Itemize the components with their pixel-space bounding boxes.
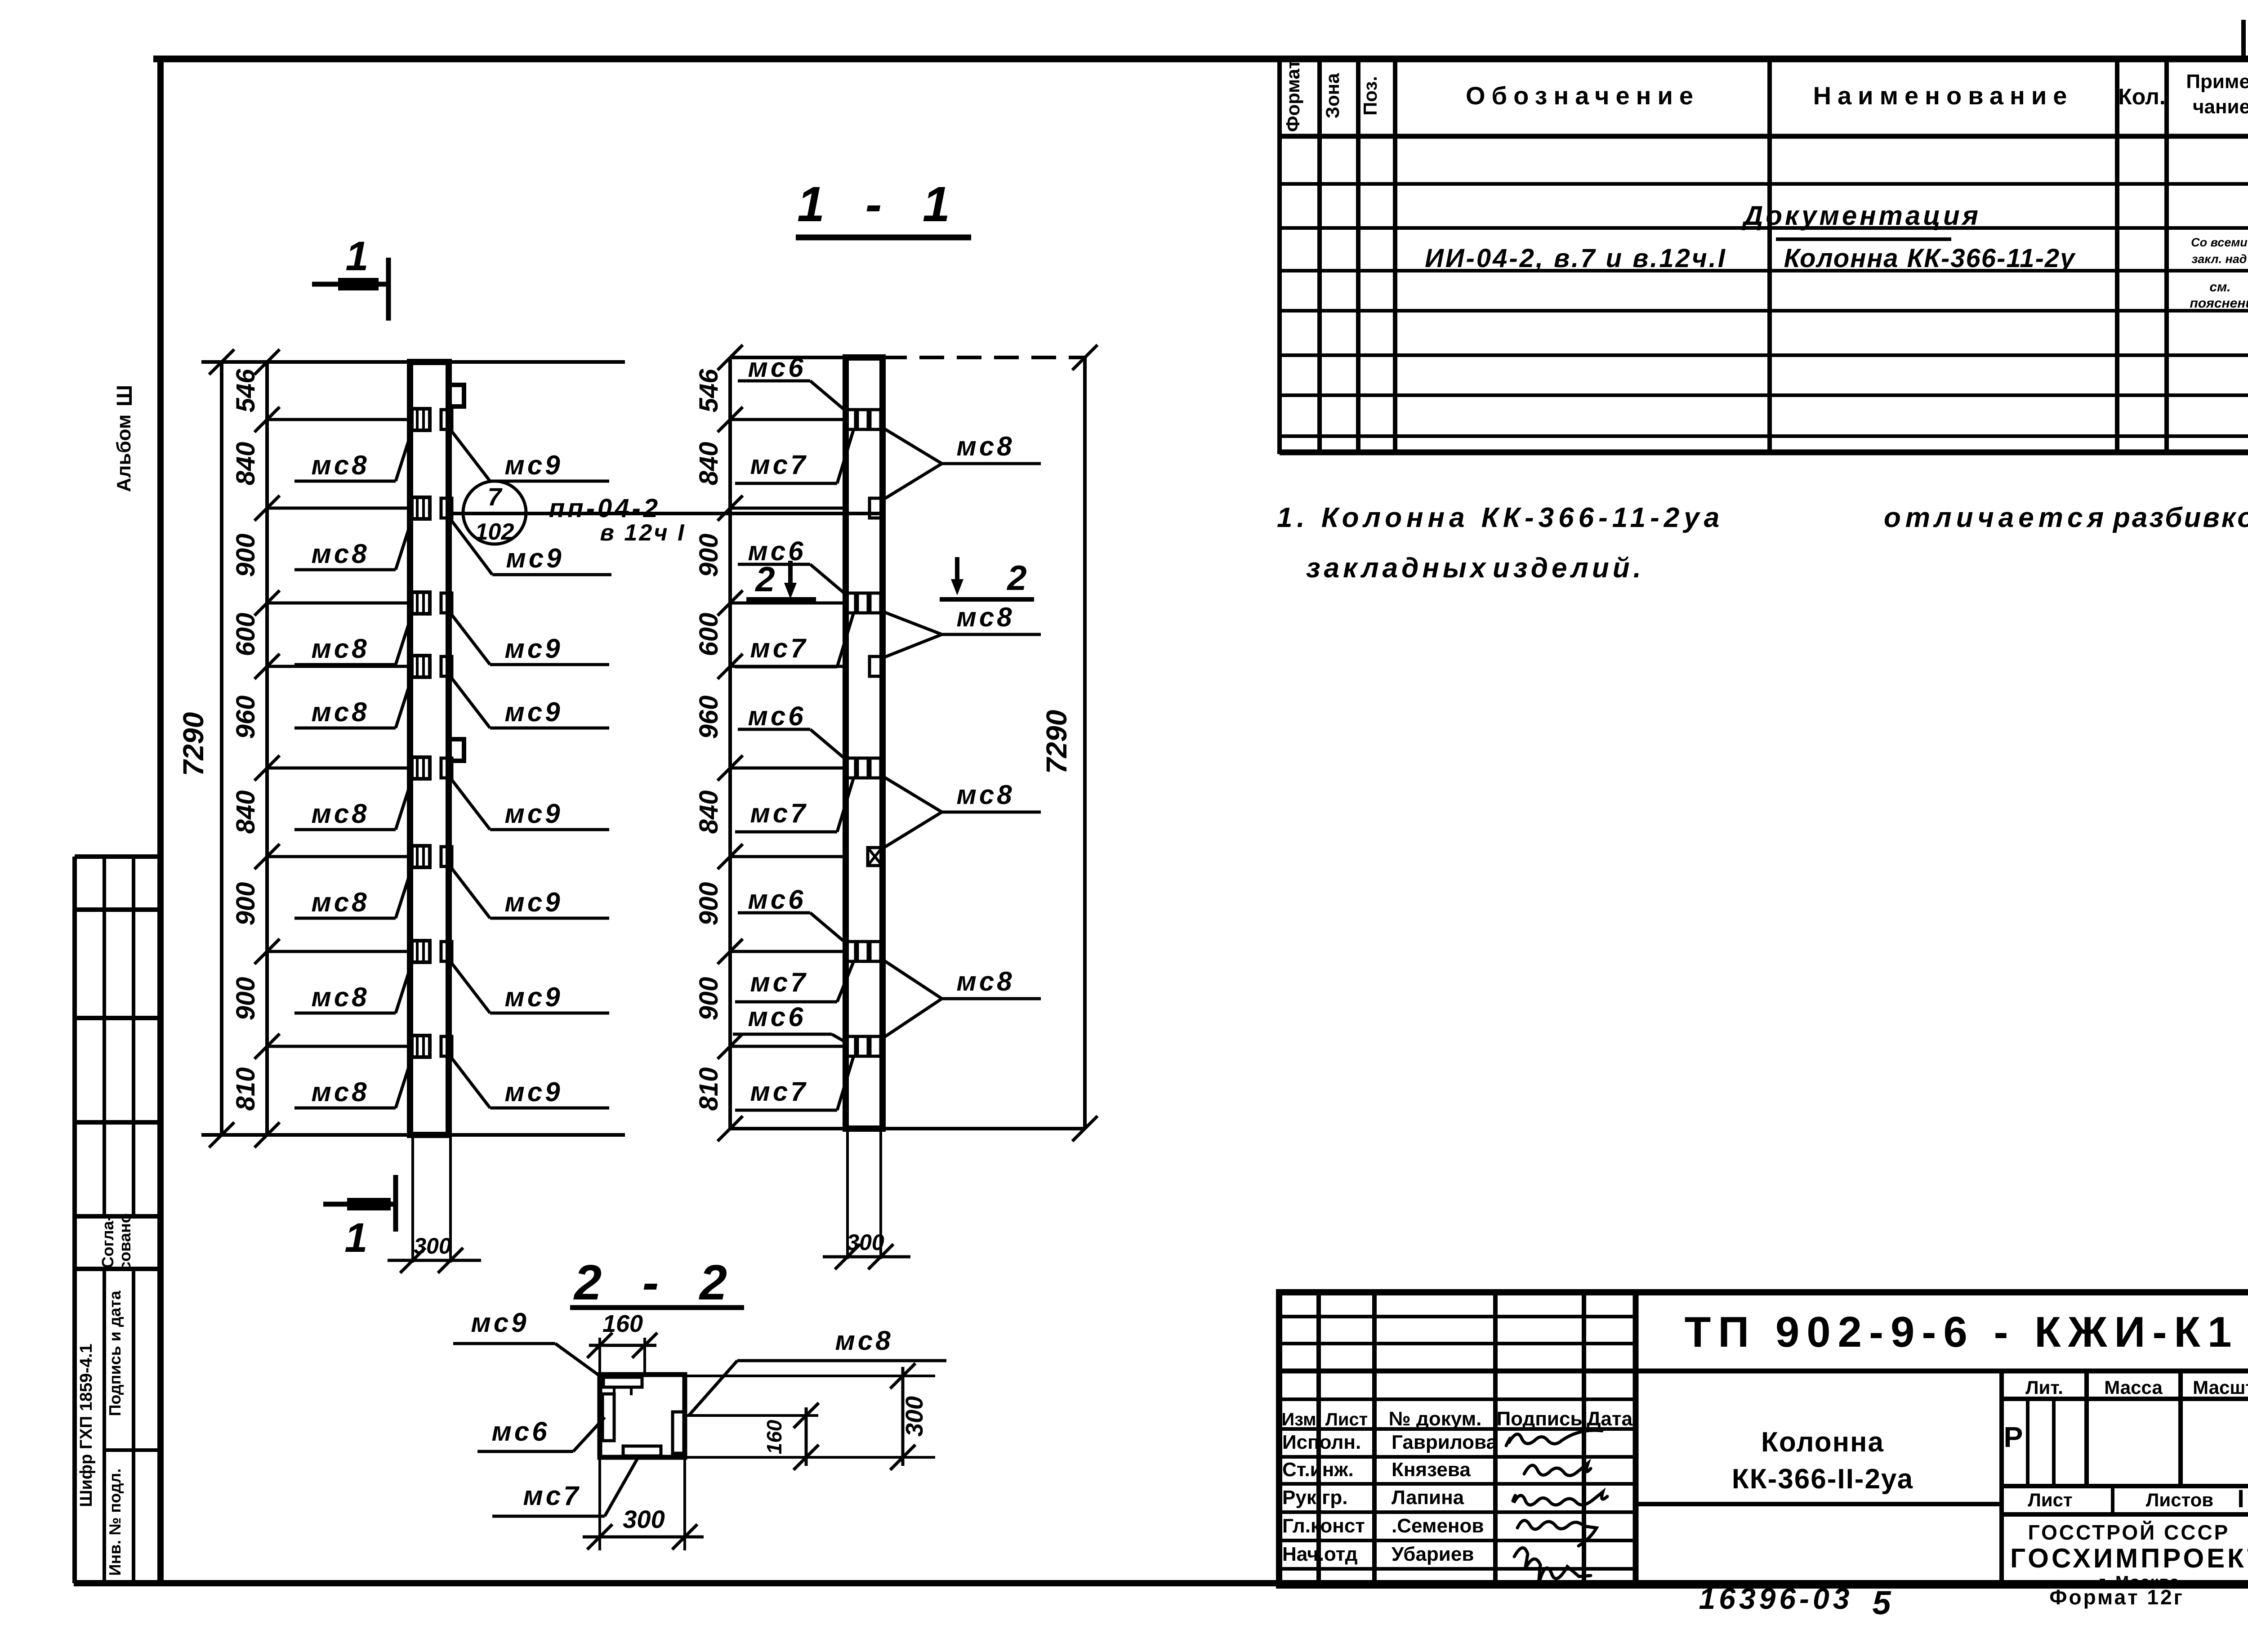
svg-text:900: 900 [231,977,260,1021]
svg-text:900: 900 [694,882,723,926]
svg-text:КК-366-II-2уа: КК-366-II-2уа [1732,1464,1913,1495]
svg-text:900: 900 [231,882,260,926]
svg-text:5: 5 [1872,1584,1891,1621]
svg-text:в 12ч I: в 12ч I [600,520,686,546]
svg-text:мс6: мс6 [748,701,806,731]
svg-text:мс8: мс8 [835,1326,893,1356]
svg-text:Подпись и дата: Подпись и дата [106,1290,124,1416]
svg-text:см.: см. [2209,280,2230,295]
svg-text:мс7: мс7 [523,1481,581,1511]
svg-text:Приме-: Приме- [2186,71,2248,93]
svg-text:мс8: мс8 [311,539,369,569]
svg-text:мс9: мс9 [471,1308,529,1338]
svg-text:840: 840 [231,790,260,834]
svg-text:мс8: мс8 [956,780,1014,810]
svg-text:810: 810 [694,1067,723,1111]
svg-text:закладных: закладных [1306,553,1489,584]
svg-text:мс8: мс8 [311,982,369,1012]
svg-text:Инв. № подл.: Инв. № подл. [106,1469,124,1576]
svg-text:изделий.: изделий. [1493,553,1645,584]
svg-text:Подпись: Подпись [1497,1408,1583,1430]
svg-text:Гаврилова: Гаврилова [1392,1431,1498,1453]
svg-text:мс9: мс9 [504,982,562,1012]
svg-text:Р: Р [2004,1421,2023,1453]
svg-text:102: 102 [475,519,514,545]
svg-text:мс7: мс7 [750,1076,808,1107]
svg-text:отличается: отличается [1884,502,2108,533]
svg-text:300: 300 [847,1230,884,1255]
svg-text:1. Колонна КК-366-11-2уа: 1. Колонна КК-366-11-2уа [1277,502,1724,533]
svg-text:900: 900 [694,534,723,577]
svg-text:Лапина: Лапина [1392,1487,1464,1509]
svg-text:мс6: мс6 [491,1416,549,1447]
svg-text:960: 960 [694,696,723,739]
svg-text:7: 7 [487,482,503,511]
svg-text:900: 900 [694,977,723,1021]
svg-text:300: 300 [901,1396,928,1437]
svg-text:закл. над: закл. над [2192,252,2247,266]
svg-text:2 - 2: 2 - 2 [573,1255,740,1310]
svg-text:чание: чание [2193,96,2248,118]
svg-text:мс7: мс7 [750,798,808,828]
svg-text:Листов: Листов [2146,1489,2213,1510]
svg-text:.Семенов: .Семенов [1392,1515,1484,1537]
svg-text:Рук.гр.: Рук.гр. [1282,1487,1348,1509]
svg-text:мс8: мс8 [311,634,369,664]
svg-text:мс6: мс6 [748,353,806,383]
svg-text:мс7: мс7 [750,450,808,480]
svg-text:мс8: мс8 [311,799,369,829]
svg-text:Документация: Документация [1741,201,1981,231]
svg-text:Формат 12г: Формат 12г [2049,1585,2184,1609]
svg-text:840: 840 [694,790,723,834]
svg-text:мс9: мс9 [504,799,562,829]
svg-text:810: 810 [231,1067,260,1111]
svg-text:мс8: мс8 [311,887,369,917]
svg-text:960: 960 [231,696,260,739]
svg-text:мс6: мс6 [748,884,806,915]
svg-text:мс9: мс9 [504,1077,562,1107]
svg-text:Убариев: Убариев [1392,1543,1474,1565]
svg-text:мс8: мс8 [956,431,1014,461]
svg-text:разбивкой: разбивкой [2112,502,2248,533]
svg-text:2: 2 [1006,558,1026,598]
svg-text:пояснение: пояснение [2190,296,2248,311]
svg-text:ГОССТРОЙ СССР: ГОССТРОЙ СССР [2028,1521,2230,1544]
svg-text:840: 840 [694,442,723,486]
svg-text:7290: 7290 [177,712,210,776]
svg-text:Зона: Зона [1322,73,1343,118]
svg-text:Гл.конст: Гл.конст [1282,1515,1365,1537]
svg-text:совано: совано [116,1213,134,1270]
svg-text:мс8: мс8 [311,697,369,727]
svg-text:Кол.: Кол. [2118,84,2165,109]
svg-text:300: 300 [623,1505,665,1533]
svg-text:Исполн.: Исполн. [1282,1431,1361,1453]
svg-text:ТП 902-9-6 - КЖИ-К1: ТП 902-9-6 - КЖИ-К1 [1685,1308,2239,1356]
svg-text:мс8: мс8 [956,602,1014,632]
svg-text:Лист: Лист [2028,1489,2072,1510]
svg-text:мс6: мс6 [748,1002,806,1032]
svg-text:300: 300 [414,1233,451,1259]
svg-text:Наименование: Наименование [1813,81,2074,110]
svg-text:1: 1 [344,1215,367,1261]
svg-text:мс7: мс7 [750,967,808,997]
svg-text:ГОСХИМПРОЕКТ: ГОСХИМПРОЕКТ [2010,1543,2248,1573]
svg-text:Дата: Дата [1587,1408,1632,1430]
svg-text:Согла-: Согла- [98,1216,117,1268]
svg-text:мс7: мс7 [750,633,808,663]
svg-text:16396-03: 16396-03 [1699,1582,1853,1615]
svg-text:мс9: мс9 [504,634,562,664]
svg-text:Формат: Формат [1282,59,1303,132]
svg-text:Масса: Масса [2104,1377,2163,1398]
svg-text:пп-04-2: пп-04-2 [549,494,660,523]
svg-text:Князева: Князева [1392,1459,1471,1481]
svg-text:мс8: мс8 [956,966,1014,996]
svg-text:2: 2 [754,559,775,599]
svg-text:7290: 7290 [1040,710,1073,774]
svg-text:Ст.инж.: Ст.инж. [1282,1459,1354,1481]
svg-text:546: 546 [694,369,723,413]
svg-text:№ докум.: № докум. [1389,1408,1482,1430]
svg-text:160: 160 [763,1420,786,1454]
svg-text:Лист: Лист [1325,1410,1368,1429]
svg-text:840: 840 [231,442,260,486]
svg-text:160: 160 [602,1310,643,1337]
svg-text:Нач.отд: Нач.отд [1282,1543,1358,1565]
svg-text:Поз.: Поз. [1360,76,1381,116]
svg-text:I: I [2237,1484,2244,1513]
svg-text:мс9: мс9 [504,450,562,480]
svg-text:Со всеми: Со всеми [2191,236,2248,249]
svg-text:ИИ-04-2, в.7 и в.12ч.I: ИИ-04-2, в.7 и в.12ч.I [1425,244,1727,273]
svg-text:1: 1 [345,233,368,279]
svg-text:600: 600 [231,613,260,656]
svg-text:Изм: Изм [1281,1410,1316,1429]
svg-text:мс9: мс9 [504,887,562,917]
svg-text:мс9: мс9 [504,697,562,727]
svg-text:Масшт.: Масшт. [2193,1377,2248,1398]
svg-text:Шифр ГХП 1859-4.1: Шифр ГХП 1859-4.1 [77,1344,96,1507]
svg-text:546: 546 [231,369,260,413]
svg-text:1 - 1: 1 - 1 [797,177,963,232]
svg-text:Колонна: Колонна [1761,1427,1884,1458]
svg-text:Лит.: Лит. [2025,1377,2063,1398]
svg-text:мс8: мс8 [311,1077,369,1107]
svg-text:Обозначение: Обозначение [1466,81,1699,110]
svg-text:900: 900 [231,534,260,577]
svg-text:мс9: мс9 [506,543,564,573]
svg-text:Альбом: Альбом [113,415,135,492]
svg-text:600: 600 [694,613,723,656]
svg-text:Ш: Ш [113,385,137,406]
svg-text:мс8: мс8 [311,450,369,480]
svg-text:Колонна КК-366-11-2у: Колонна КК-366-11-2у [1784,244,2076,273]
